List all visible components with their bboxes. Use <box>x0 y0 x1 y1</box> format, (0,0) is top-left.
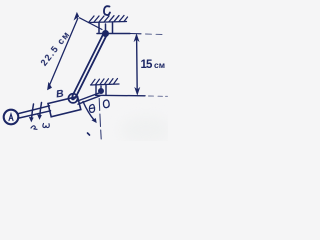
stray ink dot <box>88 133 90 135</box>
dimension arrowhead bottom <box>48 83 52 90</box>
label A <box>9 114 13 121</box>
label squiggle (handwritten) <box>31 126 37 130</box>
label omega <box>43 124 49 128</box>
joint B circle <box>68 94 77 103</box>
vertical dimension line 15 <box>136 36 139 92</box>
wall hatching at support O <box>91 79 120 86</box>
link B to O <box>78 93 100 101</box>
rod CB <box>75 35 106 98</box>
shaft tick arrow 2 <box>40 103 42 118</box>
pin O <box>98 88 103 93</box>
paper background <box>0 0 168 141</box>
arrowhead down <box>135 88 140 95</box>
ceiling hatching at support C <box>89 16 128 23</box>
extension line from C to dimension arrow <box>80 18 103 30</box>
pin bracket at O <box>96 85 106 96</box>
label theta <box>89 104 94 112</box>
label O <box>103 100 109 108</box>
angle arc theta <box>83 102 95 121</box>
dimension line 22.5 <box>49 18 78 87</box>
svg-text:15: 15 <box>141 59 153 71</box>
vertical dashed line below O <box>99 99 101 140</box>
motor A circle <box>4 110 19 125</box>
slider box <box>48 97 81 117</box>
shaft tick arrow 1 <box>32 104 34 120</box>
pin bracket at C <box>97 22 130 34</box>
shaft from motor A <box>19 106 50 114</box>
ground reference line right of O <box>96 94 146 97</box>
dimension arrowhead top <box>74 13 78 20</box>
pin C <box>102 30 108 36</box>
label C <box>104 6 110 15</box>
dashed level line from C to the right <box>130 33 141 35</box>
arrowhead up <box>134 34 139 41</box>
svg-text:см: см <box>154 60 165 70</box>
